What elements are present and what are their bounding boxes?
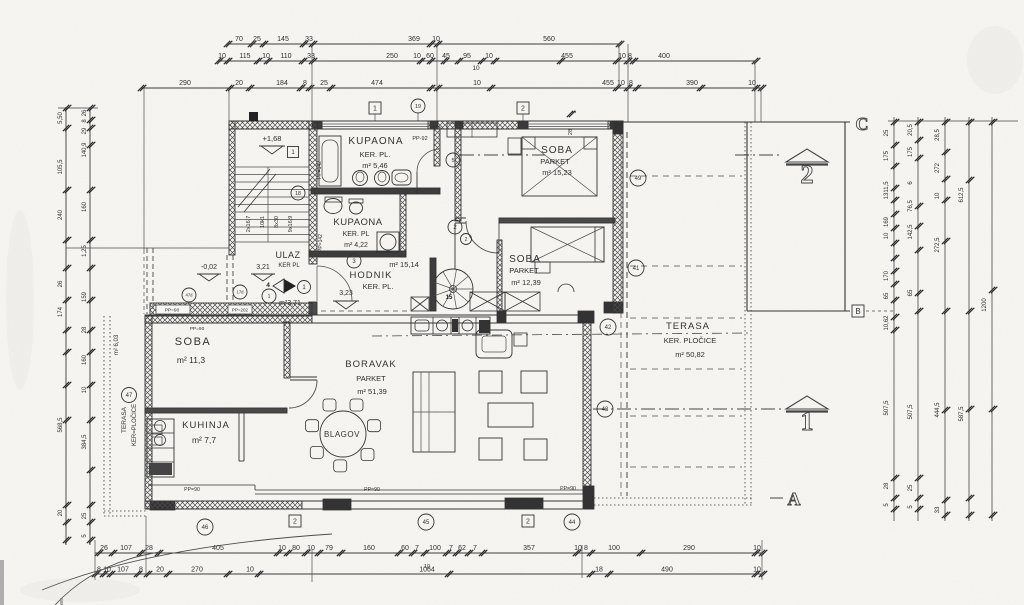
svg-text:240: 240	[58, 209, 64, 220]
svg-text:10: 10	[884, 232, 890, 239]
svg-text:PP=90: PP=90	[364, 487, 380, 493]
svg-text:10: 10	[82, 386, 88, 393]
svg-text:160: 160	[82, 201, 88, 212]
svg-text:47: 47	[126, 393, 133, 399]
svg-text:115: 115	[239, 53, 250, 60]
svg-text:25: 25	[908, 484, 914, 491]
svg-text:m² 5,46: m² 5,46	[362, 161, 387, 170]
svg-text:272: 272	[935, 162, 941, 173]
svg-text:KER. PLOČICE: KER. PLOČICE	[664, 336, 717, 345]
svg-text:8: 8	[139, 567, 143, 574]
svg-text:45: 45	[423, 520, 430, 526]
svg-text:1: 1	[268, 294, 271, 300]
svg-text:10: 10	[424, 564, 430, 570]
svg-text:20: 20	[58, 509, 64, 516]
svg-text:PP=90: PP=90	[184, 487, 200, 493]
svg-text:507,5: 507,5	[908, 404, 914, 420]
svg-text:105,5: 105,5	[58, 159, 64, 175]
svg-text:159: 159	[82, 291, 88, 302]
svg-text:184: 184	[276, 80, 288, 87]
svg-text:PARKET: PARKET	[356, 374, 386, 383]
svg-text:290: 290	[179, 80, 191, 87]
svg-text:20,5: 20,5	[908, 124, 914, 136]
svg-text:170: 170	[884, 270, 890, 281]
svg-text:175: 175	[884, 150, 890, 161]
svg-text:46: 46	[202, 525, 209, 531]
svg-text:10: 10	[473, 80, 481, 87]
svg-text:10: 10	[246, 567, 254, 574]
svg-text:m² 4,22: m² 4,22	[344, 242, 368, 249]
svg-text:107: 107	[117, 567, 129, 574]
svg-text:PP=90: PP=90	[190, 326, 205, 332]
svg-text:455: 455	[561, 53, 573, 60]
svg-text:612,5: 612,5	[959, 187, 965, 203]
svg-text:5: 5	[572, 110, 578, 113]
svg-text:2x16,7: 2x16,7	[246, 216, 252, 233]
svg-text:10k1: 10k1	[260, 216, 266, 228]
svg-text:5: 5	[451, 158, 454, 164]
svg-text:KUHINJA: KUHINJA	[182, 420, 230, 431]
svg-text:4: 4	[266, 282, 270, 289]
svg-text:PP=202: PP=202	[232, 308, 249, 313]
svg-text:2: 2	[293, 519, 297, 526]
svg-text:10: 10	[485, 53, 493, 60]
svg-text:33: 33	[307, 53, 315, 60]
svg-text:TERASA: TERASA	[121, 406, 128, 433]
svg-text:33: 33	[935, 506, 941, 513]
svg-text:33: 33	[305, 36, 313, 43]
svg-text:25: 25	[884, 129, 890, 136]
svg-text:m² 7,7: m² 7,7	[192, 435, 216, 445]
svg-text:357: 357	[523, 545, 535, 552]
svg-text:145: 145	[277, 36, 289, 43]
svg-text:KER PL: KER PL	[278, 263, 300, 269]
svg-text:m² 12,39: m² 12,39	[511, 278, 541, 287]
svg-text:28,5: 28,5	[935, 129, 941, 141]
svg-text:100: 100	[429, 545, 441, 552]
svg-text:26: 26	[58, 280, 64, 287]
svg-text:ULAZ: ULAZ	[275, 250, 300, 260]
svg-text:SOBA: SOBA	[541, 145, 573, 156]
svg-text:65: 65	[908, 289, 914, 296]
svg-text:17d: 17d	[237, 290, 245, 295]
svg-text:45: 45	[442, 53, 450, 60]
svg-text:1,25: 1,25	[82, 245, 88, 257]
svg-text:270: 270	[191, 567, 203, 574]
svg-text:15: 15	[446, 295, 453, 301]
svg-text:KER. PL: KER. PL	[343, 231, 370, 238]
svg-text:7: 7	[415, 545, 419, 552]
svg-text:28: 28	[82, 326, 88, 333]
svg-text:140,9: 140,9	[82, 142, 88, 158]
svg-text:290: 290	[683, 545, 695, 552]
svg-text:20: 20	[156, 567, 164, 574]
svg-text:587,5: 587,5	[959, 406, 965, 422]
svg-text:142,5: 142,5	[908, 224, 914, 240]
svg-text:2: 2	[526, 519, 530, 526]
svg-text:560: 560	[543, 36, 555, 43]
svg-text:47d: 47d	[186, 293, 194, 298]
svg-text:2: 2	[521, 106, 525, 113]
svg-text:474: 474	[371, 80, 383, 87]
svg-text:70: 70	[235, 36, 243, 43]
svg-text:18: 18	[595, 567, 603, 574]
svg-text:390: 390	[686, 80, 698, 87]
svg-text:160: 160	[363, 545, 375, 552]
svg-text:C: C	[856, 114, 869, 134]
svg-text:44: 44	[569, 520, 576, 526]
svg-text:2: 2	[801, 160, 814, 189]
svg-text:8: 8	[628, 53, 632, 60]
svg-text:1: 1	[801, 407, 814, 436]
svg-text:KUPAONA: KUPAONA	[333, 217, 382, 228]
svg-text:29: 29	[82, 127, 88, 134]
svg-text:65: 65	[884, 292, 890, 299]
svg-text:8: 8	[629, 80, 633, 87]
svg-text:m² 50,82: m² 50,82	[675, 350, 705, 359]
svg-text:1: 1	[373, 106, 377, 113]
svg-text:HODNIK: HODNIK	[350, 270, 393, 281]
svg-text:10: 10	[617, 80, 625, 87]
svg-text:455: 455	[602, 80, 614, 87]
svg-text:507,5: 507,5	[884, 400, 890, 416]
svg-text:m² 51,39: m² 51,39	[357, 387, 387, 396]
svg-text:10: 10	[262, 53, 270, 60]
svg-text:-0,02: -0,02	[201, 264, 217, 271]
svg-text:100: 100	[608, 545, 620, 552]
svg-text:18: 18	[295, 191, 301, 197]
svg-text:KUPAONA: KUPAONA	[348, 136, 403, 147]
svg-text:25: 25	[82, 512, 88, 519]
svg-text:m² 11,3: m² 11,3	[177, 355, 205, 365]
svg-text:62: 62	[458, 545, 466, 552]
svg-text:8: 8	[303, 80, 307, 87]
svg-text:+1,68: +1,68	[263, 134, 282, 143]
svg-text:20: 20	[235, 80, 243, 87]
svg-text:m² 15,23: m² 15,23	[542, 168, 572, 177]
svg-text:3,21: 3,21	[256, 264, 270, 271]
svg-text:10: 10	[307, 545, 315, 552]
svg-text:TERASA: TERASA	[666, 321, 710, 332]
svg-text:10: 10	[472, 65, 480, 72]
svg-text:10: 10	[574, 545, 582, 552]
svg-text:169: 169	[884, 216, 890, 227]
svg-text:10: 10	[432, 36, 440, 43]
svg-text:m² 6,03: m² 6,03	[114, 334, 120, 355]
svg-text:m² 15,14: m² 15,14	[389, 260, 419, 269]
svg-text:B: B	[855, 307, 860, 316]
svg-text:SOBA: SOBA	[175, 336, 212, 348]
svg-text:PARKET: PARKET	[509, 266, 539, 275]
svg-text:5,50: 5,50	[58, 112, 64, 124]
svg-text:60: 60	[426, 53, 434, 60]
svg-text:400: 400	[658, 53, 670, 60]
svg-text:8: 8	[584, 545, 588, 552]
svg-text:95: 95	[463, 53, 471, 60]
svg-text:10: 10	[753, 545, 761, 552]
svg-text:10,62: 10,62	[884, 315, 890, 331]
svg-text:444,5: 444,5	[935, 402, 941, 418]
svg-text:PP=90: PP=90	[165, 308, 180, 314]
svg-text:250: 250	[386, 53, 398, 60]
svg-text:107: 107	[120, 545, 132, 552]
svg-text:PARKET: PARKET	[540, 157, 570, 166]
svg-text:25: 25	[320, 80, 328, 87]
svg-text:BLAGOV: BLAGOV	[324, 430, 360, 439]
svg-text:SOBA: SOBA	[509, 254, 541, 265]
svg-text:PP-92: PP-92	[412, 136, 427, 142]
svg-text:79: 79	[325, 545, 333, 552]
svg-text:26: 26	[100, 545, 108, 552]
svg-text:BORAVAK: BORAVAK	[345, 359, 397, 370]
svg-text:10: 10	[753, 567, 761, 574]
svg-text:2: 2	[465, 237, 468, 243]
svg-text:9x16,9: 9x16,9	[288, 216, 294, 233]
svg-text:76,5: 76,5	[908, 200, 914, 212]
svg-text:10: 10	[278, 545, 286, 552]
svg-text:PP=90: PP=90	[560, 486, 576, 492]
svg-text:43: 43	[602, 407, 609, 413]
svg-text:28: 28	[884, 482, 890, 489]
svg-text:7: 7	[449, 545, 453, 552]
svg-text:m²3,71: m²3,71	[279, 300, 301, 307]
svg-text:KER. PL.: KER. PL.	[360, 150, 391, 159]
svg-text:175: 175	[908, 146, 914, 157]
svg-text:174: 174	[58, 306, 64, 317]
svg-text:272,5: 272,5	[935, 237, 941, 253]
svg-text:11,5: 11,5	[884, 181, 890, 193]
svg-text:384,5: 384,5	[82, 434, 88, 450]
svg-text:A: A	[788, 489, 801, 509]
svg-text:28: 28	[568, 129, 574, 135]
svg-text:1200: 1200	[982, 298, 988, 312]
svg-text:KER. PL.: KER. PL.	[363, 282, 394, 291]
svg-text:KER=PLOČICE: KER=PLOČICE	[131, 404, 138, 446]
svg-text:110: 110	[280, 53, 291, 60]
svg-text:490: 490	[661, 567, 673, 574]
svg-text:60: 60	[401, 545, 409, 552]
svg-text:49: 49	[635, 176, 642, 182]
svg-text:10: 10	[935, 192, 941, 199]
svg-text:369: 369	[408, 36, 420, 43]
svg-text:8x30: 8x30	[274, 216, 280, 228]
svg-text:160: 160	[82, 354, 88, 365]
svg-text:PP=142: PP=142	[317, 161, 323, 179]
svg-text:42: 42	[605, 325, 612, 331]
svg-text:568,5: 568,5	[58, 417, 64, 433]
svg-text:7: 7	[473, 545, 477, 552]
svg-text:10: 10	[218, 53, 226, 60]
svg-text:13: 13	[884, 192, 890, 199]
svg-text:41: 41	[633, 266, 640, 272]
svg-text:10: 10	[413, 53, 421, 60]
svg-text:PP=142: PP=142	[318, 234, 324, 252]
svg-text:26: 26	[82, 109, 88, 116]
svg-text:80: 80	[292, 545, 300, 552]
svg-text:25: 25	[253, 36, 261, 43]
svg-text:19: 19	[415, 104, 421, 110]
